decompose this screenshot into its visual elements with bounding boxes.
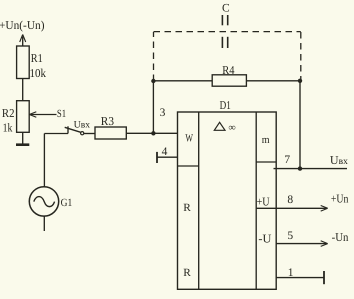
svg-text:R3: R3 xyxy=(101,114,114,128)
svg-text:∞: ∞ xyxy=(229,122,236,133)
svg-text:7: 7 xyxy=(284,154,290,166)
svg-text:вх: вх xyxy=(81,121,90,131)
svg-text:+U: +U xyxy=(257,194,270,208)
svg-text:G1: G1 xyxy=(61,197,73,209)
svg-text:8: 8 xyxy=(287,194,293,206)
svg-text:-Un: -Un xyxy=(332,230,349,244)
svg-text:4: 4 xyxy=(162,146,168,158)
svg-text:+Un(-Un): +Un(-Un) xyxy=(0,18,45,32)
svg-text:R4: R4 xyxy=(222,63,234,77)
svg-text:3: 3 xyxy=(160,107,166,119)
svg-text:W: W xyxy=(185,133,193,145)
svg-text:-U: -U xyxy=(258,231,271,245)
svg-text:вх: вх xyxy=(339,157,348,167)
svg-text:1: 1 xyxy=(288,267,294,279)
svg-text:+Un: +Un xyxy=(331,191,349,205)
svg-text:R1: R1 xyxy=(31,51,43,65)
svg-text:C: C xyxy=(222,3,230,15)
svg-text:1k: 1k xyxy=(3,121,13,135)
svg-text:R: R xyxy=(183,267,191,279)
svg-text:D1: D1 xyxy=(220,98,231,112)
svg-text:5: 5 xyxy=(287,230,293,242)
svg-text:S1: S1 xyxy=(57,108,66,120)
svg-text:m: m xyxy=(262,134,270,146)
svg-text:R: R xyxy=(183,202,191,214)
svg-text:10k: 10k xyxy=(30,66,47,80)
svg-text:R2: R2 xyxy=(2,106,15,120)
svg-text:U: U xyxy=(330,153,339,167)
